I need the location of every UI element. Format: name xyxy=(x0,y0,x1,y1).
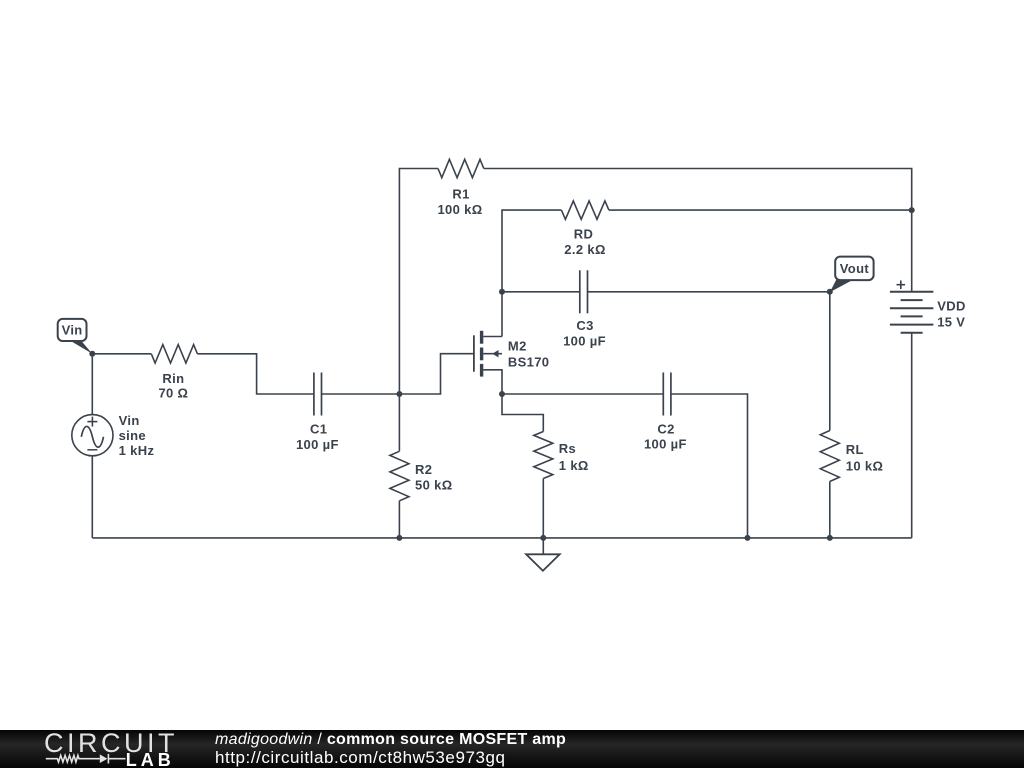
svg-text:15 V: 15 V xyxy=(937,314,965,329)
resistor R2 xyxy=(390,451,409,501)
node Vin xyxy=(89,351,95,357)
capacitor C1 xyxy=(314,373,322,416)
svg-text:sine: sine xyxy=(119,428,146,443)
node drain-C3 xyxy=(499,289,505,295)
node source xyxy=(499,391,505,397)
wire RD right lead to VDD node xyxy=(609,209,912,211)
label tag Vin pointer xyxy=(70,341,92,354)
wire R2 top lead xyxy=(398,394,400,451)
svg-text:C2: C2 xyxy=(657,422,674,437)
wire RL bottom lead xyxy=(829,482,831,538)
wire R1 to VDD corner xyxy=(484,169,912,211)
resistor Rin xyxy=(151,345,197,363)
svg-text:Vin: Vin xyxy=(62,323,83,338)
svg-text:Vin: Vin xyxy=(119,413,140,428)
svg-text:R1: R1 xyxy=(452,186,469,201)
wire Rs bottom lead xyxy=(542,479,544,538)
source Vin circle xyxy=(72,415,113,456)
transistor M2 gate bar xyxy=(473,335,475,371)
battery plus sign xyxy=(897,280,906,289)
svg-text:LAB: LAB xyxy=(126,750,175,768)
wire C3 right lead to Vout node xyxy=(588,291,830,293)
svg-text:VDD: VDD xyxy=(937,299,966,314)
wire C3 left lead xyxy=(502,291,580,293)
capacitor C2 xyxy=(663,373,671,416)
svg-text:Rs: Rs xyxy=(559,441,576,456)
source Vin sine wave xyxy=(81,426,103,447)
label tag Vin box xyxy=(58,319,87,341)
wire Rin to C1 (jog down) xyxy=(197,354,314,394)
svg-text:1 kΩ: 1 kΩ xyxy=(559,458,589,473)
wire RD left lead and drain rail xyxy=(502,210,561,336)
transistor M2 drain lead xyxy=(483,336,502,338)
node VDD-RD xyxy=(909,207,915,213)
CircuitLab logo xyxy=(0,730,200,768)
footer url xyxy=(215,748,505,768)
wire C2 right lead down to rail xyxy=(671,394,748,538)
label tag Vout box xyxy=(835,257,873,281)
node RL bottom xyxy=(827,535,833,541)
ground xyxy=(526,554,560,571)
svg-text:BS170: BS170 xyxy=(508,355,550,370)
svg-text:70 Ω: 70 Ω xyxy=(158,386,188,401)
transistor M2 body lead with arrow xyxy=(483,353,502,355)
wire battery bottom lead xyxy=(911,333,913,538)
resistor RD xyxy=(561,201,609,219)
capacitor C3 xyxy=(580,270,588,313)
wire R2 bottom lead xyxy=(398,501,400,538)
svg-text:10 kΩ: 10 kΩ xyxy=(846,458,883,473)
node Vout xyxy=(827,289,833,295)
source Vin minus xyxy=(87,449,97,451)
svg-text:100 kΩ: 100 kΩ xyxy=(437,202,482,217)
wire VDD node to battery top xyxy=(911,210,913,292)
svg-text:M2: M2 xyxy=(508,339,527,354)
wire bottom rail xyxy=(92,537,911,539)
label tag Vout pointer xyxy=(830,280,854,293)
resistor RL xyxy=(820,431,839,482)
wire left rail bottom (source bottom to rail) xyxy=(91,456,93,538)
node C1-R2 xyxy=(396,391,402,397)
transistor M2 source lead xyxy=(483,370,502,394)
svg-text:2.2 kΩ: 2.2 kΩ xyxy=(564,242,605,257)
svg-text:RL: RL xyxy=(846,442,864,457)
svg-text:C1: C1 xyxy=(310,422,327,437)
footer title xyxy=(215,731,566,749)
svg-text:100 µF: 100 µF xyxy=(644,437,687,452)
source Vin plus xyxy=(87,417,97,427)
wire source node jog to Rs xyxy=(502,394,543,432)
transistor M2 channel bars xyxy=(480,331,483,377)
wire ground stem xyxy=(542,538,544,554)
svg-text:R2: R2 xyxy=(415,462,432,477)
svg-text:100 µF: 100 µF xyxy=(563,334,606,349)
node C2 bottom xyxy=(745,535,751,541)
svg-text:C3: C3 xyxy=(576,318,593,333)
resistor R1 xyxy=(438,159,484,177)
battery V1 plates xyxy=(890,292,934,333)
svg-text:100 µF: 100 µF xyxy=(296,437,339,452)
resistor Rs xyxy=(534,432,553,479)
svg-text:Vout: Vout xyxy=(840,261,870,276)
wire Vin node to Rin xyxy=(92,353,151,355)
svg-text:50 kΩ: 50 kΩ xyxy=(415,478,452,493)
transistor M2 arrowhead xyxy=(492,350,498,357)
svg-text:1 kHz: 1 kHz xyxy=(119,443,155,458)
node Rs-ground xyxy=(540,535,546,541)
wire source node to C2 xyxy=(502,393,663,395)
footer bar xyxy=(0,730,1024,768)
wire Vout node to RL xyxy=(829,292,831,431)
wire R1 left branch xyxy=(399,169,438,395)
wire C1 to gate jog xyxy=(322,354,474,394)
svg-text:RD: RD xyxy=(574,227,593,242)
node R2 bottom xyxy=(396,535,402,541)
svg-text:Rin: Rin xyxy=(162,371,184,386)
wire left rail top (Vin node to source top) xyxy=(91,354,93,415)
